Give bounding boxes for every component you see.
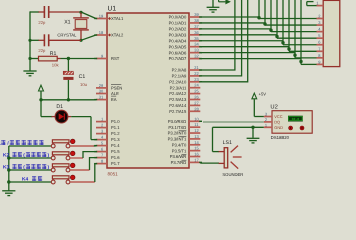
pin 19 XTAL1 stub — [96, 18, 107, 20]
svg-text:P2.0/A8: P2.0/A8 — [172, 68, 187, 73]
svg-text:36: 36 — [194, 30, 199, 35]
switch K2 push button — [9, 157, 51, 159]
node RST-C1 junction — [67, 57, 70, 60]
pin 29 PSEN stub — [96, 87, 107, 89]
svg-text:CRYSTAL: CRYSTAL — [57, 32, 77, 37]
svg-text:8051: 8051 — [108, 172, 119, 177]
svg-text:12: 12 — [194, 128, 199, 133]
power +5V arrow top (pointing right) — [218, 0, 220, 2]
node C1-EA junction — [67, 98, 70, 101]
power +5V arrow at U2 — [252, 93, 257, 99]
node P0.3 bus junction — [275, 35, 278, 38]
pin 2 U2 DQ stub — [264, 121, 272, 123]
wire P0.6 to pack pin 8 — [200, 52, 295, 54]
svg-text:19: 19 — [99, 14, 104, 19]
pin 7 P1.6 stub — [96, 157, 107, 159]
svg-text:26: 26 — [194, 95, 199, 100]
capacitor C2 22p plates — [43, 6, 45, 18]
sounder top terminal — [219, 151, 225, 153]
wire +5V to U2 VCC — [253, 99, 255, 116]
svg-text:DS18B20: DS18B20 — [271, 135, 290, 140]
wire +5V to EA pin31 — [41, 99, 96, 101]
svg-text:P0.2/AD2: P0.2/AD2 — [169, 26, 187, 31]
svg-text:P2.4/A12: P2.4/A12 — [169, 91, 187, 96]
switch K4 push button — [9, 181, 51, 183]
ground symbol under U2 — [247, 137, 260, 139]
svg-text:30: 30 — [99, 89, 104, 94]
svg-text:28: 28 — [194, 106, 199, 111]
svg-text:GND: GND — [274, 125, 283, 130]
svg-text:32: 32 — [194, 54, 199, 59]
svg-text:P1.2: P1.2 — [111, 131, 120, 136]
node rail-R1 junction — [28, 57, 31, 60]
switch K1 push button — [9, 145, 51, 147]
svg-text:14: 14 — [194, 140, 199, 145]
node rail-cap2 junction — [28, 39, 31, 42]
wire P0.4 to pack pin 6 — [200, 40, 283, 42]
svg-text:33: 33 — [194, 48, 199, 53]
wire pack pin1 to +5V rail — [307, 5, 317, 7]
svg-text:P2.3/A11: P2.3/A11 — [170, 85, 187, 90]
pin 3 pack stub — [317, 24, 324, 26]
pin 3 P1.2 stub — [96, 133, 107, 135]
wire +5V rail down to D1 — [40, 100, 42, 117]
svg-text:38: 38 — [194, 18, 199, 23]
pin 8 pack stub — [317, 57, 324, 59]
wire D1 cathode to P1.3 — [68, 116, 71, 118]
svg-text:18: 18 — [99, 30, 104, 35]
svg-text:35: 35 — [194, 36, 199, 41]
pin 16 P3.6/WR stub — [189, 156, 200, 158]
svg-text:P1.7: P1.7 — [111, 161, 120, 166]
svg-text:P0.6/AD6: P0.6/AD6 — [169, 50, 187, 55]
led D1 — [55, 110, 68, 123]
svg-text:ALE: ALE — [111, 91, 119, 96]
switch K1 red actuator dot — [70, 139, 75, 144]
XTAL1 clock marker — [108, 17, 111, 20]
node +5V junction — [39, 98, 42, 101]
ground symbol bottom-left — [2, 190, 15, 192]
svg-text:34: 34 — [194, 42, 199, 47]
wire K2 to P1.5 — [70, 157, 83, 159]
wire P0.3 to pack pin 5 — [200, 34, 277, 36]
svg-text:VCC: VCC — [274, 114, 282, 119]
svg-text:22p: 22p — [38, 48, 46, 53]
overline PSEN — [111, 83, 121, 85]
crystal X1 — [73, 17, 89, 19]
overline EA — [111, 95, 116, 97]
wire C1 bottom to +5V row — [67, 80, 69, 100]
crystal X1 top terminal — [80, 12, 82, 17]
svg-text:P0.5/AD5: P0.5/AD5 — [169, 44, 187, 49]
svg-text:2: 2 — [265, 117, 267, 122]
overline INT1 — [179, 136, 187, 138]
svg-text:K3: K3 — [3, 165, 9, 171]
svg-text:P0.4/AD4: P0.4/AD4 — [169, 38, 187, 43]
wire P0.7 to pack pin 9 — [200, 58, 301, 60]
pin 25 P2.4/A12 stub — [189, 93, 200, 95]
svg-text:U1: U1 — [108, 5, 117, 12]
svg-text:10k: 10k — [52, 63, 60, 68]
wire K4 to P1.7 — [70, 181, 95, 183]
node P0.5 bus junction — [287, 47, 290, 50]
capacitor C3 22p plates — [43, 34, 45, 46]
pin 4 pack stub — [317, 31, 324, 33]
switch K4 red actuator dot — [70, 175, 75, 180]
svg-text:LS1: LS1 — [223, 140, 232, 146]
wire to D1 anode — [41, 116, 52, 118]
svg-text:13: 13 — [194, 134, 199, 139]
pin 15 P3.5/T1 stub — [189, 150, 200, 152]
svg-text:27: 27 — [194, 100, 199, 105]
svg-text:22: 22 — [194, 71, 199, 76]
pin 28 P2.7/A15 stub — [189, 110, 200, 112]
pin 13 P3.3/INT1 stub — [189, 138, 200, 140]
svg-text:R1: R1 — [50, 51, 57, 57]
svg-text:10: 10 — [194, 116, 199, 121]
pin 11 P3.1/TXD stub — [189, 126, 200, 128]
node P0.2 bus junction — [269, 29, 272, 32]
switch K3 push button — [9, 169, 51, 171]
svg-text:P3.4/T0: P3.4/T0 — [172, 142, 187, 147]
pin 6 P1.5 stub — [96, 151, 107, 153]
svg-text:23: 23 — [194, 77, 199, 82]
overline RD — [182, 159, 187, 161]
pin 9 RST stub — [96, 58, 107, 60]
svg-text:PSEN: PSEN — [111, 86, 122, 91]
svg-text:P1.0: P1.0 — [111, 119, 120, 124]
wire P0.5 to pack pin 7 — [200, 46, 289, 48]
node crystal-top junction — [79, 11, 82, 14]
svg-text:P2.6/A14: P2.6/A14 — [169, 103, 187, 108]
pin 8 P1.7 stub — [96, 163, 107, 165]
pin 10 P3.0/RXD stub — [189, 120, 200, 122]
svg-text:P3.6/WR: P3.6/WR — [170, 154, 187, 159]
button U2 temp-up — [300, 126, 304, 130]
svg-text:25: 25 — [194, 89, 199, 94]
ground symbol top — [212, 0, 214, 7]
pin 22 P2.1/A9 stub — [189, 75, 200, 77]
pin 6 pack stub — [317, 44, 324, 46]
sensor U2 DS18B20 body — [272, 111, 312, 134]
svg-text:K4: K4 — [22, 177, 28, 183]
svg-text:P0.0/AD0: P0.0/AD0 — [169, 15, 187, 20]
wire XTAL2 node bottom row — [30, 39, 39, 41]
pin 12 P3.2/INT0 stub — [189, 132, 200, 134]
pin 23 P2.2/A10 stub — [189, 81, 200, 83]
node P0.7 bus junction — [299, 60, 302, 63]
svg-text:P1.5: P1.5 — [111, 149, 120, 154]
svg-text:P2.2/A10: P2.2/A10 — [169, 79, 187, 84]
XTAL2 clock marker — [108, 34, 111, 37]
svg-text:C1: C1 — [79, 74, 86, 80]
pin 1 P1.0 stub — [96, 121, 107, 123]
node P0.0 bus junction — [257, 16, 260, 19]
svg-text:3: 3 — [265, 112, 267, 117]
svg-text:P1.4: P1.4 — [111, 143, 120, 148]
svg-text:EA: EA — [111, 97, 117, 102]
svg-text:16: 16 — [194, 152, 199, 157]
svg-text:P3.3/INT1: P3.3/INT1 — [168, 137, 187, 142]
svg-text:K2: K2 — [3, 153, 9, 159]
svg-text:XTAL1: XTAL1 — [111, 16, 124, 21]
resistor pack RP1 body — [323, 0, 340, 66]
wire rail to R1 — [30, 58, 39, 60]
wire K3 to P1.6 — [70, 169, 89, 171]
svg-text:P3.0/RXD: P3.0/RXD — [168, 119, 186, 124]
svg-text:22p: 22p — [38, 20, 46, 25]
svg-text:D1: D1 — [56, 104, 63, 110]
pin 1 pack stub — [317, 5, 324, 7]
wire GND down to sounder top pin — [212, 127, 214, 151]
svg-text:37: 37 — [194, 24, 199, 29]
overline WR — [182, 153, 187, 155]
svg-text:P0.1/AD1: P0.1/AD1 — [169, 21, 187, 26]
svg-text:P0.3/AD3: P0.3/AD3 — [169, 32, 187, 37]
pin 1 U2 GND stub — [264, 126, 272, 128]
ground symbol left — [23, 70, 36, 72]
svg-text:U2: U2 — [270, 103, 277, 110]
svg-text:P3.5/T1: P3.5/T1 — [172, 148, 187, 153]
pin 27 P2.6/A14 stub — [189, 104, 200, 106]
svg-text:+5V: +5V — [259, 92, 267, 97]
svg-text:P1.6: P1.6 — [111, 155, 120, 160]
wire diagonal to XTAL1 — [81, 12, 96, 19]
wire P2.0 up — [200, 0, 235, 70]
speaker LS1 sounder — [224, 148, 228, 168]
pin 33 P0.6/AD6 stub — [189, 52, 200, 54]
svg-text:X1: X1 — [64, 19, 70, 25]
power +5V arrow left — [40, 91, 42, 99]
svg-text:P3.2/INT0: P3.2/INT0 — [168, 131, 187, 136]
overline INT0 — [179, 130, 187, 132]
op-amp U1 8051 microcontroller body — [107, 13, 189, 168]
wire P3.7 to sounder bottom pin — [200, 162, 219, 164]
wire U2 GND net — [213, 126, 264, 128]
svg-text:DQ: DQ — [274, 119, 280, 124]
svg-text:P3.1/TXD: P3.1/TXD — [168, 125, 186, 130]
svg-text:31: 31 — [99, 95, 104, 100]
svg-text:1: 1 — [265, 122, 267, 127]
svg-text:P2.7/A15: P2.7/A15 — [169, 109, 187, 114]
pin 3 U2 VCC stub — [264, 116, 272, 118]
wire left ground rail — [29, 11, 31, 70]
node GND junction — [251, 126, 254, 129]
wire cap to crystal top — [49, 11, 81, 13]
node P0.4 bus junction — [281, 41, 284, 44]
svg-text:29: 29 — [99, 83, 104, 88]
switch K2 red actuator dot — [70, 151, 75, 156]
wire XTAL1 node top row — [30, 11, 39, 13]
svg-text:P1.3: P1.3 — [111, 137, 120, 142]
display U2 temperature readout 33.0 — [288, 116, 303, 122]
pin 4 P1.3 stub — [96, 139, 107, 141]
pin 31 EA stub — [96, 99, 107, 101]
capacitor C1 10u electrolytic — [63, 71, 73, 74]
pin 39 P0.0/AD0 stub — [189, 16, 200, 18]
wire P0.2 to pack pin 4 — [200, 28, 271, 30]
pin 32 P0.7/AD7 stub — [189, 58, 200, 60]
switch K3 red actuator dot — [70, 163, 75, 168]
pin 14 P3.4/T0 stub — [189, 144, 200, 146]
svg-text:P1.1: P1.1 — [111, 125, 120, 130]
pin 9 pack stub — [317, 63, 324, 65]
sounder bottom terminal — [219, 162, 225, 164]
pin 2 P1.1 stub — [96, 127, 107, 129]
wire button ground rail — [8, 146, 10, 191]
pin 24 P2.3/A11 stub — [189, 87, 200, 89]
pin 36 P0.3/AD3 stub — [189, 34, 200, 36]
svg-text:SOUNDER: SOUNDER — [222, 172, 243, 177]
node P0.6 bus junction — [293, 54, 296, 57]
pin 5 pack stub — [317, 37, 324, 39]
node crystal-bottom junction — [79, 39, 82, 42]
wire P0.1 to pack pin 3 — [200, 22, 265, 24]
pin 34 P0.5/AD5 stub — [189, 46, 200, 48]
pin 38 P0.1/AD1 stub — [189, 22, 200, 24]
svg-text:39: 39 — [194, 12, 199, 17]
wire P2.2 up — [200, 0, 247, 82]
svg-text:33.0: 33.0 — [292, 117, 300, 121]
pin 5 P1.4 stub — [96, 145, 107, 147]
svg-text:P2.5/A13: P2.5/A13 — [169, 97, 187, 102]
sounder sound waves — [231, 146, 238, 153]
svg-text:P0.7/AD7: P0.7/AD7 — [169, 56, 187, 61]
svg-text:10u: 10u — [80, 82, 88, 87]
pin 2 pack stub — [317, 18, 324, 20]
wire K1 to P1.4 — [70, 145, 94, 147]
svg-text:XTAL2: XTAL2 — [111, 33, 124, 38]
button U2 temp-down — [289, 126, 293, 130]
wire diagonal to XTAL2 — [81, 35, 96, 40]
wire P0.0 to pack pin 2 — [200, 16, 259, 18]
svg-text:P3.7/RD: P3.7/RD — [171, 160, 187, 165]
crystal X1 bottom terminal — [80, 30, 82, 40]
pin 30 ALE stub — [96, 93, 107, 95]
svg-text:17: 17 — [194, 157, 199, 162]
pin 17 P3.7/RD stub — [189, 161, 200, 163]
svg-text:P2.1/A9: P2.1/A9 — [172, 74, 187, 79]
node P0.1 bus junction — [263, 22, 266, 25]
pin 26 P2.5/A13 stub — [189, 99, 200, 101]
wire to ground — [252, 127, 254, 138]
svg-text:15: 15 — [194, 146, 199, 151]
wire R1 to RST — [57, 58, 60, 60]
wire C1 top terminal — [67, 59, 69, 72]
pin 37 P0.2/AD2 stub — [189, 28, 200, 30]
svg-text:RST: RST — [111, 56, 120, 61]
pin 18 XTAL2 stub — [96, 34, 107, 36]
pin 21 P2.0/A8 stub — [189, 69, 200, 71]
svg-text:24: 24 — [194, 83, 199, 88]
pin 35 P0.4/AD4 stub — [189, 40, 200, 42]
wire cap2 to crystal bottom — [49, 39, 81, 41]
svg-text:21: 21 — [194, 65, 199, 70]
wire P2.1 up — [200, 0, 241, 76]
resistor R1 — [39, 56, 58, 61]
wire DQ from P3.0 to U2 (pale) — [203, 121, 264, 123]
pin 7 pack stub — [317, 50, 324, 52]
